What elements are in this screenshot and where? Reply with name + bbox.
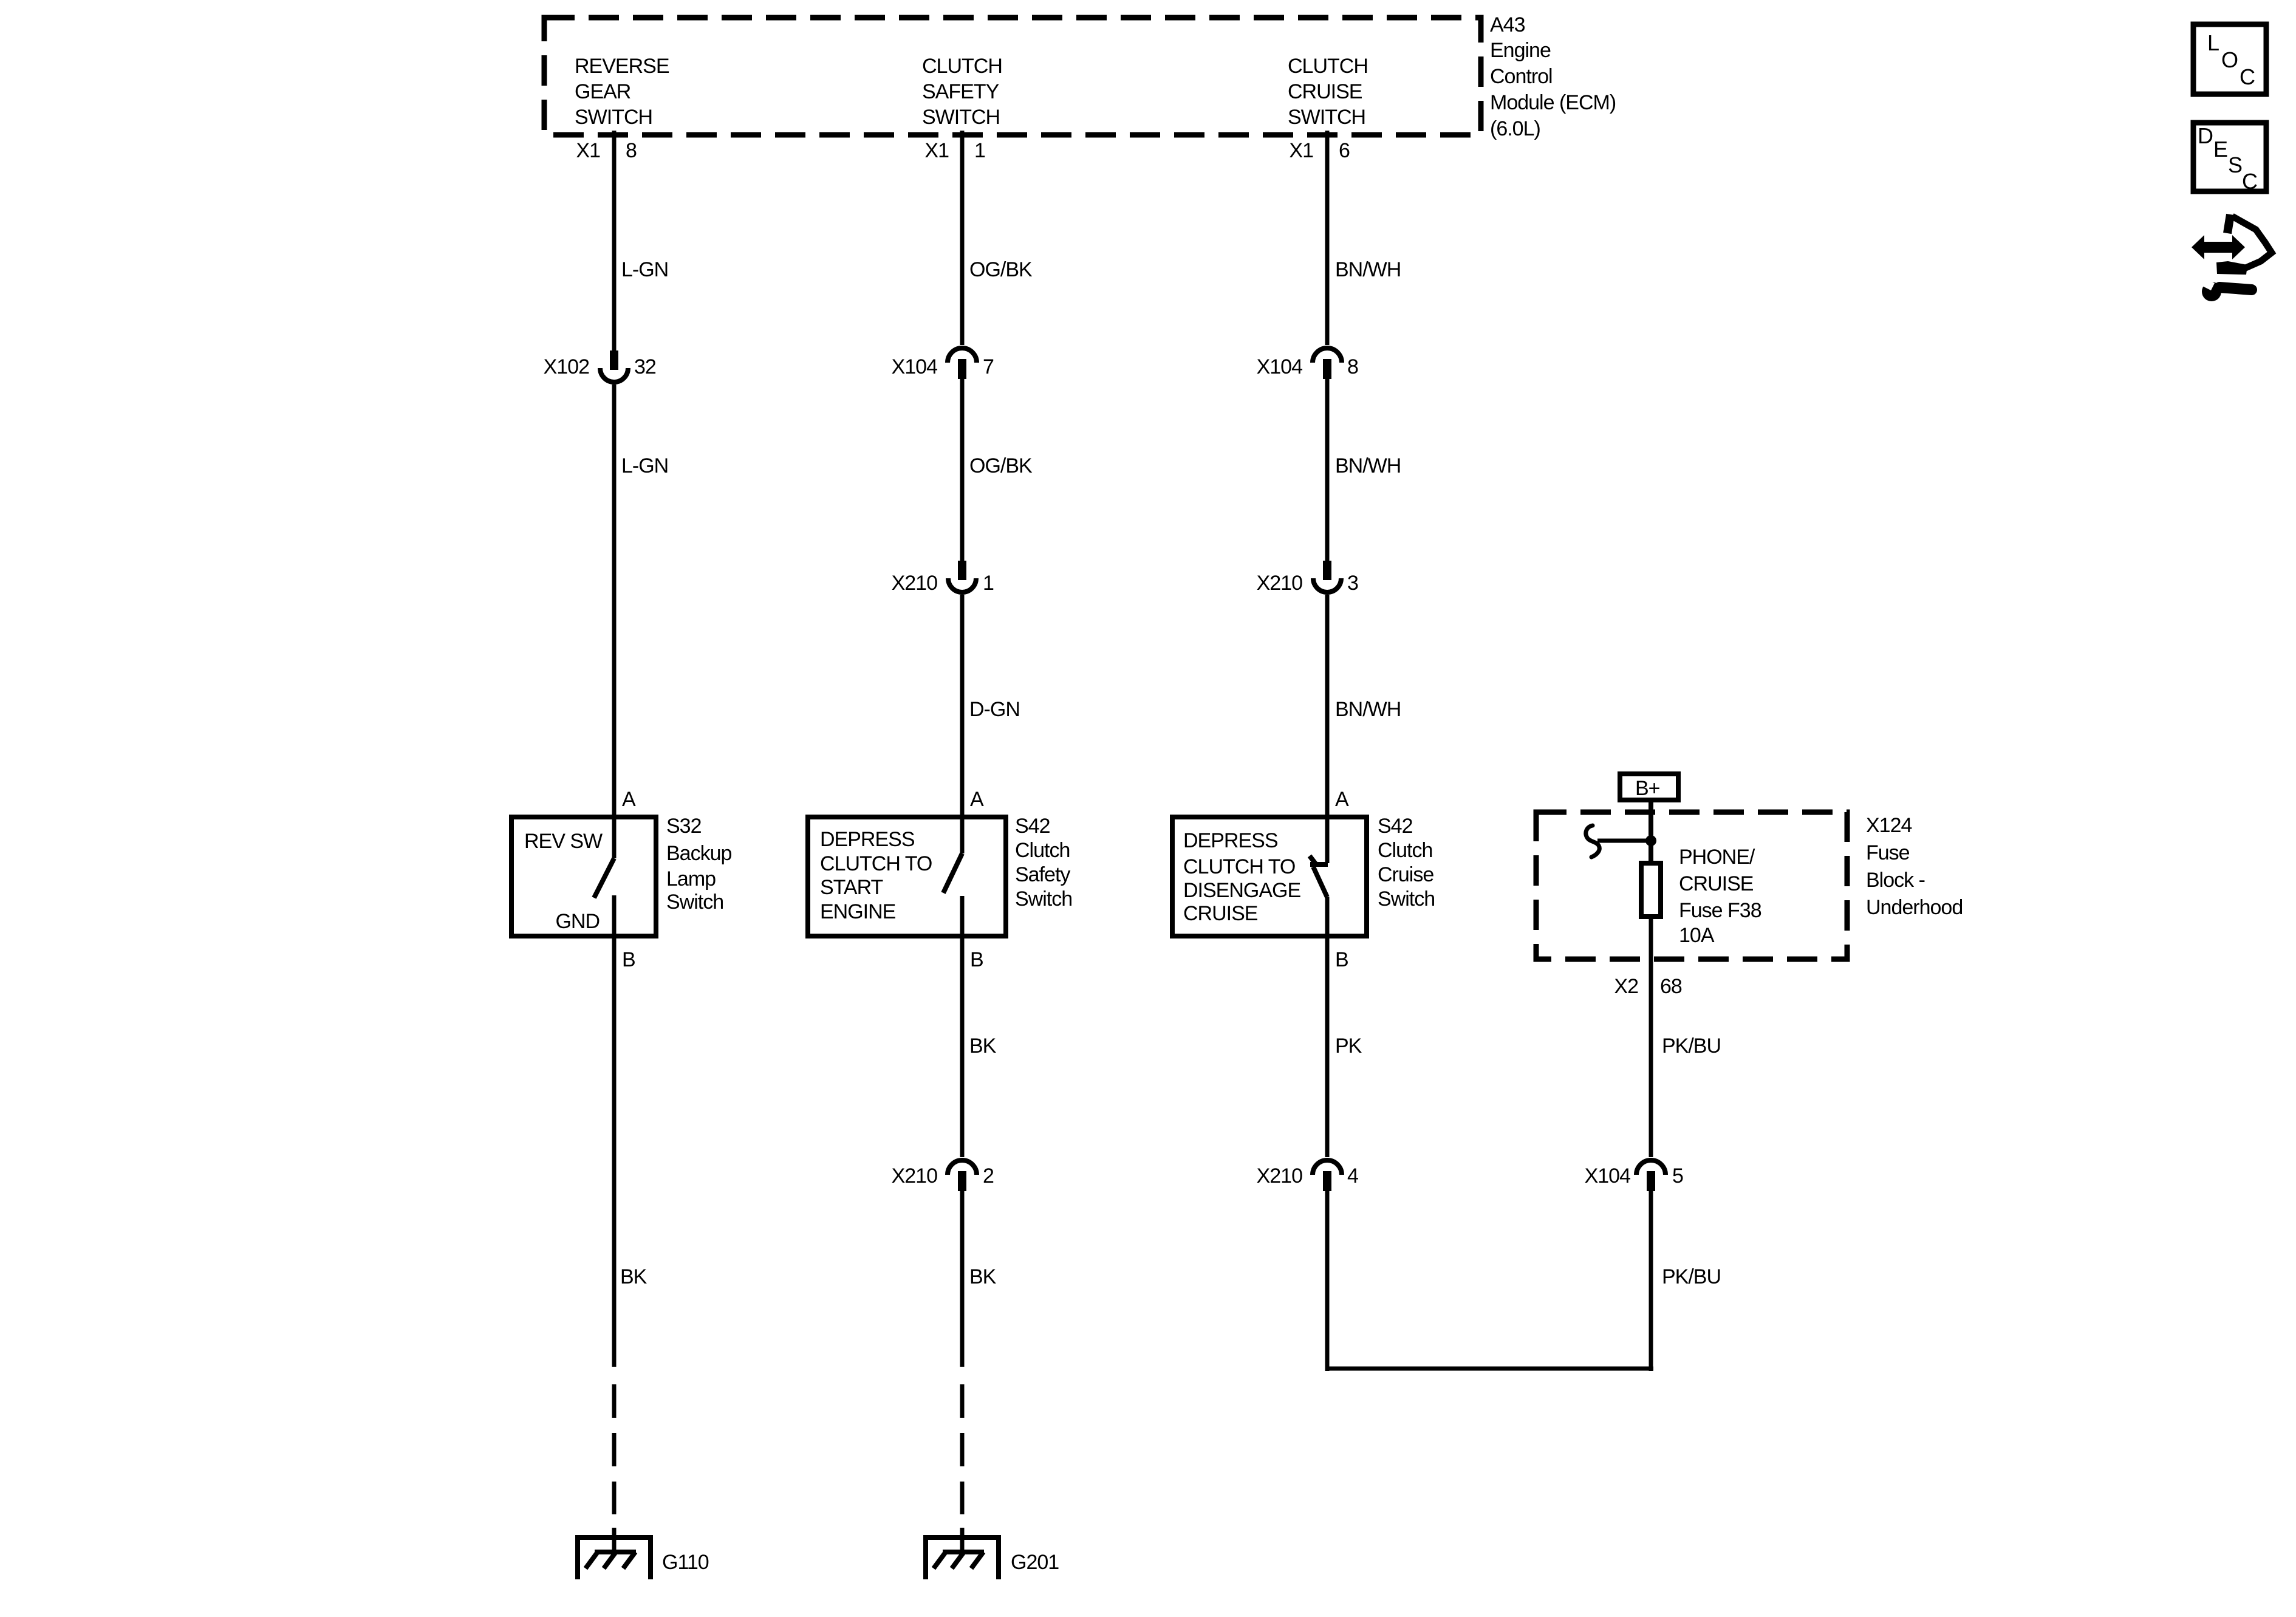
wire col3 X104 to X210-3 bbox=[1325, 379, 1330, 561]
svg-text:B: B bbox=[1335, 948, 1348, 971]
svg-text:A: A bbox=[970, 788, 984, 811]
wire col3 ECM to connector X104-8 bbox=[1325, 131, 1330, 345]
svg-text:REVERSE: REVERSE bbox=[575, 55, 669, 78]
svg-text:2: 2 bbox=[983, 1164, 994, 1188]
wire col1 switch B to dashed bbox=[612, 936, 617, 1367]
pin X1 6 bbox=[1289, 139, 1350, 162]
svg-text:ENGINE: ENGINE bbox=[820, 900, 896, 923]
svg-text:X210: X210 bbox=[892, 1164, 937, 1188]
connector X104 7 bbox=[892, 348, 994, 379]
svg-text:Fuse: Fuse bbox=[1866, 841, 1910, 864]
svg-text:L: L bbox=[2207, 30, 2219, 55]
label REVERSE GEAR SWITCH bbox=[575, 55, 669, 129]
svg-text:8: 8 bbox=[626, 139, 637, 162]
svg-text:7: 7 bbox=[983, 355, 994, 378]
svg-text:X1: X1 bbox=[1289, 139, 1313, 162]
svg-text:D-GN: D-GN bbox=[969, 698, 1020, 721]
wire col1 ground stub bbox=[612, 1528, 617, 1554]
connector X210 4 bbox=[1257, 1160, 1358, 1191]
svg-text:BN/WH: BN/WH bbox=[1335, 454, 1401, 477]
svg-text:Underhood: Underhood bbox=[1866, 896, 1963, 919]
label DEPRESS CLUTCH TO START ENGINE bbox=[820, 828, 932, 923]
svg-text:B: B bbox=[622, 948, 635, 971]
svg-text:PHONE/: PHONE/ bbox=[1679, 846, 1755, 869]
svg-text:CLUTCH TO: CLUTCH TO bbox=[1183, 855, 1295, 878]
label DEPRESS CLUTCH TO DISENGAGE CRUISE bbox=[1183, 829, 1300, 925]
svg-text:BN/WH: BN/WH bbox=[1335, 258, 1401, 281]
svg-text:BK: BK bbox=[620, 1265, 647, 1288]
svg-text:1: 1 bbox=[983, 572, 994, 595]
svg-text:X102: X102 bbox=[544, 355, 589, 378]
pin X2 68 bbox=[1614, 975, 1682, 998]
icon jump arrow outline bbox=[2216, 214, 2272, 275]
label CLUTCH SAFETY SWITCH bbox=[922, 55, 1002, 129]
icon wrench bbox=[2202, 279, 2252, 301]
fuse F38 bbox=[1641, 863, 1661, 917]
ground G110 bbox=[578, 1537, 709, 1579]
label S42 Clutch Safety Switch bbox=[1015, 815, 1072, 911]
svg-text:Backup: Backup bbox=[666, 842, 731, 865]
svg-text:68: 68 bbox=[1660, 975, 1682, 998]
svg-text:G201: G201 bbox=[1011, 1551, 1059, 1574]
wire col2 switch B to X210-2 bbox=[960, 936, 965, 1157]
switch S42 cruise contacts and blade bbox=[1310, 817, 1328, 938]
svg-text:X2: X2 bbox=[1614, 975, 1638, 998]
label X124 Fuse Block - Underhood bbox=[1866, 814, 1963, 919]
svg-text:SWITCH: SWITCH bbox=[922, 106, 1000, 129]
svg-text:B+: B+ bbox=[1635, 777, 1660, 800]
svg-text:8: 8 bbox=[1347, 355, 1358, 378]
svg-text:E: E bbox=[2213, 137, 2227, 162]
wire col3 switch B to X210-4 bbox=[1325, 936, 1330, 1157]
ground G201 bbox=[926, 1537, 1059, 1579]
label CLUTCH CRUISE SWITCH bbox=[1288, 55, 1368, 129]
label PHONE/CRUISE Fuse F38 10A bbox=[1679, 846, 1761, 947]
icon DESC box bbox=[2193, 123, 2266, 194]
svg-text:PK: PK bbox=[1335, 1034, 1362, 1058]
svg-text:X210: X210 bbox=[1257, 572, 1302, 595]
svg-text:D: D bbox=[2198, 123, 2213, 148]
pin X1 8 bbox=[576, 139, 637, 162]
svg-text:OG/BK: OG/BK bbox=[969, 454, 1033, 477]
label A43 Engine Control Module (ECM) (6.0L) bbox=[1490, 13, 1616, 140]
svg-text:X104: X104 bbox=[1257, 355, 1302, 378]
switch S42 clutch safety box bbox=[808, 817, 1006, 936]
bus continuation curl bbox=[1586, 826, 1599, 857]
svg-text:5: 5 bbox=[1672, 1164, 1683, 1188]
connector X104 5 bbox=[1585, 1160, 1683, 1191]
svg-text:A43: A43 bbox=[1490, 13, 1525, 36]
wire bottom horizontal col3 to fuse bbox=[1325, 1367, 1653, 1371]
svg-text:DEPRESS: DEPRESS bbox=[820, 828, 915, 851]
svg-text:Engine: Engine bbox=[1490, 39, 1551, 62]
svg-text:3: 3 bbox=[1347, 572, 1358, 595]
svg-text:CRUISE: CRUISE bbox=[1679, 872, 1754, 895]
svg-text:O: O bbox=[2221, 47, 2238, 72]
battery feed B+ box bbox=[1620, 774, 1678, 800]
svg-text:B: B bbox=[970, 948, 983, 971]
svg-text:G110: G110 bbox=[662, 1551, 709, 1574]
svg-text:Fuse F38: Fuse F38 bbox=[1679, 899, 1761, 922]
wire col2 X210-1 to switch A bbox=[960, 595, 965, 817]
wire col1 ECM to connector X102 bbox=[612, 131, 617, 351]
svg-text:C: C bbox=[2240, 64, 2255, 89]
wire fuse to X104-5 bbox=[1649, 917, 1653, 1157]
wire col2 ground stub bbox=[960, 1528, 965, 1554]
svg-text:Clutch: Clutch bbox=[1015, 839, 1070, 862]
wire X104-5 down to bottom horizontal bbox=[1649, 1191, 1653, 1371]
svg-text:X1: X1 bbox=[924, 139, 949, 162]
svg-text:CLUTCH TO: CLUTCH TO bbox=[820, 852, 932, 875]
switch S42 safety contacts and blade bbox=[943, 817, 962, 938]
svg-text:A: A bbox=[1335, 788, 1349, 811]
connector X210 3 bbox=[1257, 561, 1358, 595]
switch S42 clutch cruise box bbox=[1172, 817, 1367, 936]
svg-text:10A: 10A bbox=[1679, 924, 1715, 947]
label S42 Clutch Cruise Switch bbox=[1378, 815, 1435, 911]
wire col2 X210-2 to dashed bbox=[960, 1191, 965, 1367]
svg-text:OG/BK: OG/BK bbox=[969, 258, 1033, 281]
svg-text:GEAR: GEAR bbox=[575, 80, 630, 103]
svg-text:Clutch: Clutch bbox=[1378, 839, 1432, 862]
svg-text:CRUISE: CRUISE bbox=[1288, 80, 1362, 103]
svg-text:PK/BU: PK/BU bbox=[1662, 1265, 1721, 1288]
svg-text:C: C bbox=[2242, 169, 2257, 194]
switch S32 box bbox=[511, 817, 656, 936]
connector X104 8 bbox=[1257, 348, 1358, 379]
svg-text:Control: Control bbox=[1490, 65, 1553, 88]
switch S32 contacts and blade bbox=[594, 817, 614, 938]
svg-text:BK: BK bbox=[969, 1265, 997, 1288]
svg-text:START: START bbox=[820, 876, 883, 899]
svg-text:REV SW: REV SW bbox=[524, 830, 603, 853]
connector X210 1 bbox=[892, 561, 994, 595]
svg-text:32: 32 bbox=[634, 355, 656, 378]
svg-text:S42: S42 bbox=[1015, 815, 1050, 838]
svg-text:BK: BK bbox=[969, 1034, 997, 1058]
svg-text:SWITCH: SWITCH bbox=[575, 106, 652, 129]
wire col1 X102 to switch A bbox=[612, 385, 617, 817]
wire B+ to fuse bbox=[1649, 802, 1653, 863]
svg-text:CLUTCH: CLUTCH bbox=[1288, 55, 1368, 78]
svg-text:6: 6 bbox=[1339, 139, 1350, 162]
icon double arrow bbox=[2192, 235, 2245, 259]
svg-text:Switch: Switch bbox=[1378, 887, 1435, 911]
svg-text:X210: X210 bbox=[1257, 1164, 1302, 1188]
svg-text:CLUTCH: CLUTCH bbox=[922, 55, 1002, 78]
svg-text:A: A bbox=[622, 788, 636, 811]
svg-text:S: S bbox=[2228, 152, 2242, 177]
wire bus branch horizontal bbox=[1597, 839, 1651, 843]
svg-text:GND: GND bbox=[555, 910, 600, 933]
svg-text:Switch: Switch bbox=[666, 891, 723, 914]
svg-text:X104: X104 bbox=[1585, 1164, 1630, 1188]
icon LOC box bbox=[2193, 24, 2266, 94]
svg-text:Cruise: Cruise bbox=[1378, 863, 1433, 886]
svg-text:X210: X210 bbox=[892, 572, 937, 595]
svg-text:L-GN: L-GN bbox=[621, 258, 668, 281]
wire col2 X104 to X210-1 bbox=[960, 379, 965, 561]
svg-text:L-GN: L-GN bbox=[621, 454, 668, 477]
svg-text:Module (ECM): Module (ECM) bbox=[1490, 91, 1616, 114]
svg-text:Lamp: Lamp bbox=[666, 867, 716, 891]
connector X102 32 bbox=[544, 350, 656, 382]
svg-text:DEPRESS: DEPRESS bbox=[1183, 829, 1278, 852]
svg-text:SWITCH: SWITCH bbox=[1288, 106, 1365, 129]
svg-text:Switch: Switch bbox=[1015, 887, 1072, 911]
fuse block X124 dashed box bbox=[1536, 812, 1847, 959]
svg-text:CRUISE: CRUISE bbox=[1183, 902, 1258, 925]
svg-text:Block -: Block - bbox=[1866, 869, 1925, 892]
svg-text:BN/WH: BN/WH bbox=[1335, 698, 1401, 721]
pin X1 1 bbox=[924, 139, 985, 162]
svg-text:(6.0L): (6.0L) bbox=[1490, 117, 1540, 140]
wire col3 X210-4 down bbox=[1325, 1191, 1330, 1371]
svg-text:X104: X104 bbox=[892, 355, 937, 378]
label S32 Backup Lamp Switch bbox=[666, 815, 731, 914]
svg-text:S32: S32 bbox=[666, 815, 702, 838]
svg-text:S42: S42 bbox=[1378, 815, 1413, 838]
svg-text:4: 4 bbox=[1347, 1164, 1358, 1188]
wire col3 X210-3 to switch A bbox=[1325, 595, 1330, 817]
svg-text:PK/BU: PK/BU bbox=[1662, 1034, 1721, 1058]
svg-text:X1: X1 bbox=[576, 139, 600, 162]
node junction dot bbox=[1645, 835, 1656, 846]
wire col2 ECM to connector X104-7 bbox=[960, 131, 965, 345]
svg-text:Safety: Safety bbox=[1015, 863, 1070, 886]
svg-text:1: 1 bbox=[974, 139, 985, 162]
wire col2 dashed ground lead bbox=[960, 1384, 965, 1514]
svg-text:SAFETY: SAFETY bbox=[922, 80, 999, 103]
svg-text:X124: X124 bbox=[1866, 814, 1912, 837]
connector X210 2 bbox=[892, 1160, 994, 1191]
svg-text:DISENGAGE: DISENGAGE bbox=[1183, 879, 1300, 902]
ECM module A43 dashed box bbox=[544, 18, 1481, 135]
wire col1 dashed ground lead bbox=[612, 1384, 617, 1514]
